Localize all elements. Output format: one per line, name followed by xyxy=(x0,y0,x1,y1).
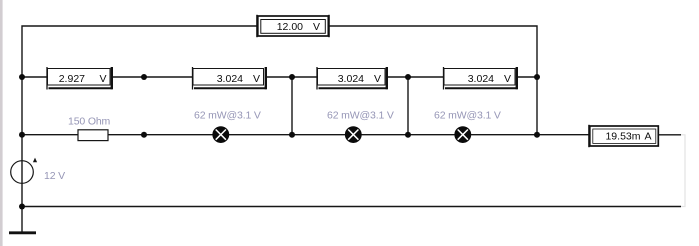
wire top right xyxy=(329,26,537,77)
node E meter row xyxy=(534,74,540,80)
window left edge xyxy=(0,0,3,246)
voltmeter V3 3.024 V xyxy=(317,67,388,90)
svg-text:3.024: 3.024 xyxy=(468,73,494,85)
node left main row xyxy=(19,132,25,138)
lamp L2 xyxy=(345,127,361,143)
wire left vertical xyxy=(21,77,23,207)
wire top left xyxy=(22,26,257,77)
svg-text:62 mW@3.1 V: 62 mW@3.1 V xyxy=(327,110,394,122)
voltmeter V4 3.024 V xyxy=(444,67,518,90)
svg-text:2.927: 2.927 xyxy=(59,73,85,85)
svg-text:V: V xyxy=(313,21,320,33)
node D meter row xyxy=(405,74,411,80)
wire bottom return xyxy=(22,206,681,208)
wire meter row seg 5 xyxy=(517,76,537,78)
lamp L1 xyxy=(213,127,229,143)
wire meter row seg 3 xyxy=(266,76,317,78)
svg-text:19.53m: 19.53m xyxy=(605,131,640,143)
node C meter row xyxy=(289,74,295,80)
voltmeter V2 3.024 V xyxy=(193,67,267,90)
node B meter row xyxy=(141,74,147,80)
svg-text:V: V xyxy=(504,73,511,85)
wire right faint link xyxy=(681,135,685,207)
wire node D drop xyxy=(407,77,409,135)
svg-text:12.00: 12.00 xyxy=(277,21,303,33)
wire meter row seg 4 xyxy=(387,76,444,78)
svg-text:A: A xyxy=(644,131,651,143)
wire main row xyxy=(22,134,589,136)
svg-text:62 mW@3.1 V: 62 mW@3.1 V xyxy=(434,110,501,122)
svg-text:12 V: 12 V xyxy=(44,170,65,182)
node left meter row xyxy=(19,74,25,80)
wire meter row seg 2 xyxy=(112,76,193,78)
voltmeter V1 2.927 V xyxy=(47,67,113,90)
resistor R1 150 Ohm xyxy=(78,130,108,141)
svg-text:V: V xyxy=(374,73,381,85)
ground xyxy=(9,207,36,233)
voltmeter V5 12.00 V (top) xyxy=(257,15,329,37)
svg-text:3.024: 3.024 xyxy=(217,73,243,85)
node E main row xyxy=(534,132,540,138)
svg-text:150 Ohm: 150 Ohm xyxy=(68,116,111,128)
wire meter row seg 1 xyxy=(22,76,47,78)
wire node E drop xyxy=(536,77,538,135)
node C main row xyxy=(289,132,295,138)
node D main row xyxy=(405,132,411,138)
svg-text:3.024: 3.024 xyxy=(338,73,364,85)
node bottom left xyxy=(19,204,25,210)
svg-text:V: V xyxy=(99,73,106,85)
ammeter A1 19.53 mA xyxy=(589,125,658,147)
svg-text:V: V xyxy=(253,73,260,85)
battery B1 12V xyxy=(11,158,37,184)
node B main row xyxy=(141,132,147,138)
lamp L3 xyxy=(455,127,471,143)
wire node C drop xyxy=(291,77,293,135)
svg-text:62 mW@3.1 V: 62 mW@3.1 V xyxy=(194,110,261,122)
wire ammeter out xyxy=(659,134,681,136)
